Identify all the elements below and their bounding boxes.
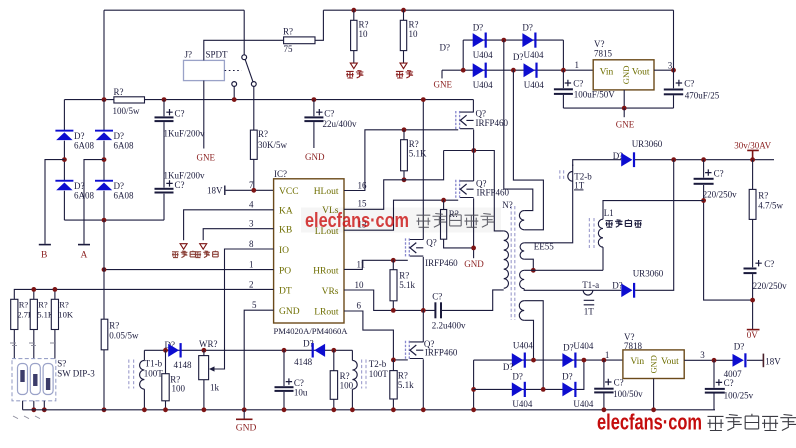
- junction rect mid2: [102, 157, 107, 162]
- wire VRs to node B: [344, 290, 435, 310]
- svg-text:30v/30AV: 30v/30AV: [734, 140, 771, 150]
- core L1: [589, 218, 594, 248]
- svg-text:220/250v: 220/250v: [753, 281, 788, 291]
- svg-text:D?: D?: [503, 362, 514, 372]
- diode D? 6A08 d: [95, 180, 113, 182]
- svg-text:6A08: 6A08: [74, 141, 94, 151]
- junction aux2 right: [582, 358, 587, 363]
- wire KB control: [203, 229, 273, 241]
- wire L1 top: [603, 201, 704, 220]
- junction 0V node: [750, 298, 755, 303]
- overline 1T t2: [574, 189, 584, 191]
- wire c100-50 stubs: [603, 360, 605, 410]
- transformer T1-b winding: [140, 360, 145, 389]
- junction aux1 cap: [561, 68, 566, 73]
- svg-text:2: 2: [249, 279, 254, 289]
- inductor L1: [598, 219, 603, 247]
- junction WR top: [202, 348, 207, 353]
- svg-text:SW DIP-3: SW DIP-3: [57, 369, 95, 379]
- plus 470uF: [676, 80, 682, 86]
- wire rail B drop to vout: [673, 10, 675, 70]
- diode D? 6A08 a: [55, 130, 73, 132]
- svg-text:PO: PO: [279, 267, 291, 277]
- wire HLout to gate M1: [344, 130, 458, 191]
- wire C10u stubs: [283, 350, 285, 410]
- terminal fan-b arrow: [400, 63, 407, 69]
- wire R75 left: [244, 39, 283, 41]
- plus 22u: [316, 109, 322, 115]
- svg-text:UR3060: UR3060: [632, 139, 663, 149]
- svg-text:VRs: VRs: [322, 287, 339, 297]
- resistor R? 5.1k m3: [390, 270, 397, 301]
- junction M4 bus: [421, 407, 426, 412]
- wire main DC bus: [64, 99, 473, 101]
- svg-text:1k: 1k: [210, 383, 220, 393]
- svg-text:GNE: GNE: [434, 80, 453, 90]
- svg-text:1: 1: [575, 60, 580, 70]
- transformer N? winding S3: [520, 270, 525, 288]
- relay J? SPDT coil box: [184, 60, 225, 80]
- svg-text:Vout: Vout: [632, 68, 650, 78]
- diode D? U404 b3: [512, 382, 523, 396]
- svg-text:LRout: LRout: [314, 308, 339, 318]
- plus 100/25: [716, 379, 722, 385]
- resistor R? 100/5w: [114, 97, 145, 103]
- junction R100a bus: [163, 407, 168, 412]
- svg-text:7: 7: [249, 180, 254, 190]
- svg-text:R?: R?: [114, 87, 124, 97]
- wire gateR stubs: [444, 200, 474, 248]
- svg-text:PM4020A/PM4060A: PM4020A/PM4060A: [274, 326, 349, 336]
- wire M2 source: [473, 198, 475, 258]
- junction aux2 s4a: [531, 358, 536, 363]
- wire top rail A: [104, 9, 244, 11]
- wire GND pin5: [244, 310, 273, 410]
- svg-text:C?: C?: [714, 169, 724, 179]
- svg-text:IC?: IC?: [274, 169, 287, 179]
- svg-text:100/25v: 100/25v: [724, 390, 754, 400]
- wire gnd stub: [243, 410, 245, 419]
- junction DIP bus a: [31, 407, 36, 412]
- switch DIP element 2: [30, 364, 40, 395]
- junction aux1 row2 mid: [511, 68, 516, 73]
- junction node A: [471, 148, 476, 153]
- junction aux1 row1 mid: [501, 38, 506, 43]
- svg-text:C?: C?: [175, 180, 185, 190]
- terminal A bar: [78, 244, 90, 246]
- transformer N? winding S4: [519, 301, 524, 321]
- svg-text:T2-b: T2-b: [369, 359, 387, 369]
- svg-text:100: 100: [172, 384, 186, 394]
- svg-text:15: 15: [358, 199, 368, 209]
- svg-text:Vout: Vout: [661, 357, 679, 367]
- junction c100-50 bus: [602, 407, 607, 412]
- svg-text:0.05/5w: 0.05/5w: [109, 331, 139, 341]
- wire switch feed: [243, 10, 245, 55]
- wire R51K1 stubs: [403, 130, 405, 180]
- svg-text:C?: C?: [764, 259, 774, 269]
- wire DT line: [14, 289, 273, 299]
- svg-text:470uF/25: 470uF/25: [685, 91, 720, 101]
- svg-text:7815: 7815: [594, 49, 613, 59]
- terminal B bar: [39, 244, 51, 246]
- wire GNE stub top: [441, 70, 443, 78]
- svg-text:0V: 0V: [747, 330, 759, 340]
- svg-text:5.1K: 5.1K: [409, 149, 427, 159]
- core T2-b: [362, 360, 366, 389]
- wire M4 source: [422, 359, 424, 410]
- ground GND bar: [236, 418, 253, 420]
- svg-text:D?: D?: [734, 342, 745, 352]
- svg-text:D?: D?: [74, 131, 85, 141]
- transistor Q? IRFP460 M2: [456, 180, 474, 199]
- diode D? 4148 a: [168, 344, 179, 357]
- svg-text:HRout: HRout: [313, 266, 339, 276]
- wire M1 source: [473, 130, 475, 151]
- svg-text:GND: GND: [305, 152, 325, 162]
- svg-text:75: 75: [284, 44, 294, 54]
- junction bus M3: [421, 97, 426, 102]
- wire 18V to VCC: [226, 189, 274, 191]
- svg-text:4007: 4007: [724, 369, 743, 379]
- svg-text:3: 3: [700, 350, 705, 360]
- svg-text:DT: DT: [279, 286, 292, 296]
- svg-text:U404: U404: [573, 341, 593, 351]
- wire top rail B: [323, 9, 673, 11]
- svg-text:R?: R?: [340, 371, 350, 381]
- svg-text:100T: 100T: [369, 369, 389, 379]
- junction R10a top: [351, 8, 356, 13]
- resistor R? 5.1K m1: [401, 140, 408, 171]
- svg-text:elecfans·com: elecfans·com: [305, 210, 409, 232]
- wire to terminal B: [45, 160, 64, 244]
- regulator V? 7818 box: [623, 350, 684, 379]
- svg-text:GND: GND: [279, 307, 300, 317]
- label 控制2: [195, 251, 219, 258]
- wire 7815 gnd pin: [623, 90, 625, 108]
- switch pole contact: [242, 55, 247, 60]
- wire rect col1: [63, 100, 65, 221]
- wire feedback line: [144, 349, 352, 351]
- svg-text:100/50v: 100/50v: [613, 389, 643, 399]
- svg-text:U404: U404: [573, 399, 593, 409]
- svg-text:100uF/50V: 100uF/50V: [574, 89, 616, 99]
- regulator V? 7815 box: [593, 60, 654, 90]
- wire S2 top path: [524, 165, 573, 243]
- core T1-a bars: [584, 300, 595, 305]
- svg-text:U404: U404: [473, 50, 493, 60]
- resistor R? 100 b: [330, 371, 337, 400]
- wire M3 source to nodeB: [422, 257, 424, 311]
- svg-text:GND: GND: [464, 259, 484, 269]
- core T2-b CT: [560, 170, 564, 180]
- wire R10b to fan: [403, 51, 405, 63]
- transformer N? winding S2: [520, 243, 524, 259]
- wire S4 bottom path: [524, 320, 533, 360]
- wire KA control: [184, 210, 274, 241]
- svg-text:R?: R?: [283, 27, 293, 37]
- capacitor C? 470uF/25: [664, 89, 683, 91]
- svg-text:4.7/5w: 4.7/5w: [758, 200, 783, 210]
- junction aux2 vin: [602, 358, 607, 363]
- svg-text:4: 4: [249, 200, 254, 210]
- junction out cap: [701, 157, 706, 162]
- transformer T1-a arc: [583, 290, 593, 295]
- svg-text:C?: C?: [614, 378, 624, 388]
- wire IO to wiper: [213, 249, 274, 369]
- diode D? U404 t1: [473, 33, 484, 47]
- svg-text:S?: S?: [57, 359, 66, 369]
- diode D? UR3060 a: [621, 153, 632, 167]
- svg-text:D?: D?: [74, 181, 85, 191]
- svg-text:5: 5: [252, 300, 257, 310]
- junction C10u top: [282, 348, 287, 353]
- diode D? 4148 b: [312, 343, 314, 357]
- wire to terminal A: [84, 160, 104, 244]
- wire center tap line: [524, 269, 603, 271]
- switch throw contact left: [232, 82, 237, 87]
- wire throw right to R30K: [253, 86, 255, 130]
- wire rect col2: [103, 100, 105, 221]
- svg-text:1T: 1T: [584, 306, 595, 316]
- junction bus 22u: [312, 97, 317, 102]
- junction R100b bus: [331, 407, 336, 412]
- junction out join: [671, 157, 676, 162]
- transistor Q? IRFP460 M3: [406, 238, 424, 257]
- svg-text:V?: V?: [594, 39, 605, 49]
- svg-text:U404: U404: [473, 80, 493, 90]
- diode D? U404 b2: [562, 353, 573, 367]
- wire LLout to gate M2: [344, 200, 458, 230]
- wire 7818 vout: [684, 359, 732, 361]
- capacitor C? 1KuF/200v a: [155, 116, 174, 118]
- wire output line: [635, 159, 774, 161]
- junction R100b top: [331, 348, 336, 353]
- wire R51kb stubs: [392, 360, 394, 410]
- junction rect mid1: [62, 157, 67, 162]
- core transformer N?: [511, 206, 515, 320]
- wire div to DIP: [14, 330, 55, 359]
- wire R30K to pin7: [253, 159, 255, 190]
- terminal 0V bar: [747, 329, 760, 331]
- svg-text:100/5w: 100/5w: [113, 106, 141, 116]
- svg-text:1KuF/200v: 1KuF/200v: [164, 129, 206, 139]
- wire S1 bottom path: [513, 70, 543, 230]
- capacitor C? 1KuF/200v b: [155, 188, 174, 190]
- svg-text:U404: U404: [524, 50, 544, 60]
- resistor R? 5.1K div: [30, 299, 37, 329]
- switch DIP element 1: [18, 364, 28, 395]
- wire T2-b bottom: [351, 389, 353, 410]
- wire relay coil to GNE: [203, 81, 205, 149]
- wire R75 right to rail B: [315, 10, 323, 40]
- plus 100/50: [605, 379, 611, 385]
- wire node A: [444, 151, 504, 231]
- junction aux2 left bus: [471, 407, 476, 412]
- plus cap a: [166, 109, 172, 115]
- wire relay actuator dashed: [225, 70, 242, 72]
- svg-text:D?: D?: [512, 372, 523, 382]
- svg-text:GND: GND: [621, 66, 631, 85]
- svg-text:C?: C?: [175, 109, 185, 119]
- svg-text:C?: C?: [724, 378, 734, 388]
- svg-text:B: B: [41, 251, 47, 261]
- svg-text:Q?: Q?: [426, 238, 437, 248]
- wire c220b bottom: [752, 274, 754, 329]
- wire R100b stubs: [333, 350, 335, 410]
- decor mid watermark band: [301, 208, 501, 233]
- wire 7815 gnd rail: [563, 107, 673, 109]
- transformer T2-b CT arc: [568, 171, 573, 181]
- svg-text:U404: U404: [513, 340, 533, 350]
- svg-text:10: 10: [355, 280, 365, 290]
- svg-text:N?: N?: [502, 200, 513, 210]
- wire c220a stubs: [704, 160, 753, 300]
- svg-text:WR?: WR?: [199, 339, 218, 349]
- svg-text:4148: 4148: [174, 360, 193, 370]
- svg-text:1: 1: [249, 260, 254, 270]
- resistor R? 2.7K: [11, 299, 18, 329]
- junction aux2 s4b: [541, 387, 546, 392]
- wire throw left to bus: [233, 86, 235, 99]
- svg-text:R?: R?: [19, 300, 29, 310]
- junction shunt bus: [102, 407, 107, 412]
- junction R51ka bottom: [391, 308, 396, 313]
- svg-text:D?: D?: [473, 22, 484, 32]
- switch throw contact right: [251, 82, 256, 87]
- junction R51kb bus: [391, 407, 396, 412]
- label fan-b 风扇: [396, 71, 413, 79]
- wire shunt to bus: [103, 350, 105, 410]
- wire aux1 row1 to row2 right: [562, 40, 564, 70]
- transistor Q? IRFP460 M4: [406, 341, 424, 360]
- transformer T2-b winding: [352, 360, 357, 389]
- junction C10u bus: [282, 407, 287, 412]
- junction aux1 gne: [461, 68, 466, 73]
- svg-text:R?: R?: [409, 20, 419, 30]
- svg-text:D?: D?: [562, 372, 573, 382]
- label 控制1: [172, 251, 196, 258]
- resistor R? 30K/5w: [250, 130, 257, 159]
- wire L1 bottom to tap: [602, 247, 604, 270]
- junction gnd bus: [242, 407, 247, 412]
- terminal 18V bar: [762, 354, 764, 368]
- svg-text:GNE: GNE: [616, 119, 635, 129]
- svg-text:16: 16: [358, 181, 368, 191]
- diode D? 4007: [733, 354, 744, 367]
- wire R10b top: [403, 10, 405, 20]
- svg-text:R?: R?: [59, 300, 69, 310]
- transformer N? winding S1: [519, 211, 524, 230]
- junction R51K1 top: [402, 127, 407, 132]
- capacitor C? 220/250v b: [744, 268, 757, 270]
- wire S2 through CT to diode: [573, 160, 622, 166]
- terminal 30v bar: [747, 150, 759, 159]
- svg-text:KB: KB: [279, 226, 292, 236]
- wire M2 drain: [473, 151, 475, 182]
- wire S2 bottom to tap: [524, 259, 533, 270]
- wire aux1 row1: [463, 39, 563, 41]
- junction gate M3 node: [391, 258, 396, 263]
- svg-text:T1-a: T1-a: [582, 280, 599, 290]
- svg-text:C?: C?: [324, 109, 334, 119]
- small marks below DIP: [13, 416, 40, 419]
- svg-text:elecfans·com: elecfans·com: [597, 410, 702, 435]
- capacitor C? 2.2u400v: [434, 302, 436, 318]
- junction M2 source: [471, 246, 476, 251]
- diode D? 6A08 c: [55, 180, 73, 182]
- junction pin7: [251, 188, 256, 193]
- wire PO node down: [103, 220, 105, 319]
- decor bottom watermark cjk: [708, 414, 796, 431]
- terminal 18V left bar: [224, 186, 226, 196]
- plus 100uF: [565, 80, 571, 86]
- terminal control1 arrow: [180, 244, 187, 250]
- wire HRout to gate M3: [344, 260, 408, 269]
- svg-text:SPDT: SPDT: [206, 50, 229, 60]
- wire M4 drain: [422, 310, 424, 342]
- resistor R? 10 fan-b: [400, 20, 406, 50]
- resistor R? 5.1k m4: [390, 371, 397, 399]
- wire aux2 row1: [474, 359, 623, 361]
- junction 220a mid: [701, 198, 706, 203]
- wire gne stub 7815: [623, 108, 625, 117]
- diode D? U404 t3: [473, 63, 484, 77]
- svg-text:R?: R?: [758, 191, 768, 201]
- wire switch blade: [245, 59, 253, 81]
- plus 220a: [705, 169, 711, 175]
- svg-text:IRFP460: IRFP460: [425, 347, 458, 357]
- svg-text:5.1k: 5.1k: [398, 380, 414, 390]
- wire DIP to bus: [23, 401, 45, 410]
- wire c470 stubs: [673, 70, 675, 108]
- junction WR bus: [202, 407, 207, 412]
- resistor R? 4.7/5w: [749, 189, 756, 219]
- svg-text:D?: D?: [563, 342, 574, 352]
- wire c100-25 stubs: [713, 360, 715, 410]
- svg-text:GND: GND: [649, 355, 658, 373]
- plus 220b: [755, 260, 761, 266]
- svg-text:10K: 10K: [58, 310, 74, 320]
- svg-text:100: 100: [340, 381, 354, 391]
- svg-text:D?: D?: [612, 280, 623, 290]
- junction 7815 gnd: [622, 106, 627, 111]
- svg-text:KA: KA: [279, 207, 293, 217]
- junction 7818 gnd bus: [651, 407, 656, 412]
- svg-text:L1: L1: [604, 208, 614, 218]
- resistor R? 10K: [51, 299, 58, 329]
- svg-text:D?: D?: [114, 131, 125, 141]
- wire T1-b top drop: [143, 350, 145, 360]
- wire R10a top: [353, 10, 355, 20]
- svg-text:U404: U404: [512, 399, 532, 409]
- wire R10a to fan: [353, 51, 355, 63]
- svg-text:220/250v: 220/250v: [703, 190, 738, 200]
- wire T2-b top drop: [351, 350, 353, 360]
- pot wiper arrow: [209, 366, 215, 371]
- transistor Q? IRFP460 M1: [456, 111, 474, 130]
- svg-text:D?: D?: [513, 52, 524, 62]
- wire WR stubs: [203, 350, 205, 410]
- wire S1 top path: [504, 40, 533, 211]
- resistor R? 75: [284, 37, 315, 44]
- resistor R? gate m2: [441, 210, 447, 240]
- diode D? 6A08 b: [95, 130, 113, 132]
- terminal control2 arrow: [200, 244, 207, 250]
- wire relay top to switch node: [204, 40, 244, 60]
- diode D? U404 t2: [522, 33, 533, 47]
- svg-text:IRFP460: IRFP460: [425, 258, 458, 268]
